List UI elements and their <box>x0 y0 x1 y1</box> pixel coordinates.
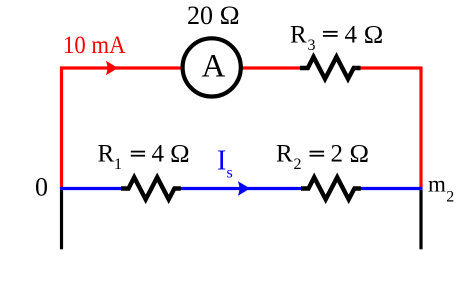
wire: blue segment R2 to node m2 <box>359 187 423 190</box>
svg-text:4: 4 <box>152 141 165 168</box>
svg-text:m: m <box>428 171 446 196</box>
wire: red segment R3 to top-right corner and down right side <box>359 68 421 189</box>
svg-text:Ω: Ω <box>170 141 190 168</box>
ammeter U1: circle <box>183 38 241 96</box>
arrowhead: Is current direction <box>238 181 250 195</box>
wire: red segment ammeter to R3 <box>242 66 302 69</box>
svg-text:20: 20 <box>187 1 213 30</box>
resistor R2 zigzag <box>301 177 361 199</box>
svg-text:2: 2 <box>446 189 454 206</box>
resistor R3 zigzag <box>300 57 361 79</box>
resistor R1 zigzag <box>121 177 181 199</box>
svg-text:4: 4 <box>345 22 358 49</box>
svg-text:I: I <box>217 146 226 177</box>
wire: blue segment R1 to R2 <box>180 187 302 190</box>
svg-text:A: A <box>202 49 226 85</box>
svg-text:R: R <box>276 141 293 168</box>
svg-text:s: s <box>227 165 233 182</box>
svg-text:Ω: Ω <box>220 1 240 30</box>
svg-text:3: 3 <box>308 37 316 54</box>
svg-text:2: 2 <box>331 141 344 168</box>
svg-text:1: 1 <box>114 156 122 173</box>
wire: top horizontal red segment from corner to ammeter <box>60 66 182 69</box>
svg-text:0: 0 <box>35 173 48 202</box>
svg-text:R: R <box>290 22 307 49</box>
wire: left vertical red segment (node 0 up to top-left corner) <box>60 67 63 190</box>
svg-text:R: R <box>98 141 115 168</box>
wire: black stub below node m2 <box>419 190 422 249</box>
arrowhead: 10 mA current direction <box>106 61 118 75</box>
wire: black stub below node 0 <box>60 190 63 249</box>
svg-text:10 mA: 10 mA <box>63 32 126 59</box>
wire: blue segment node 0 to R1 <box>60 187 122 190</box>
svg-text:2: 2 <box>294 156 302 173</box>
svg-text:Ω: Ω <box>350 141 370 168</box>
svg-text:Ω: Ω <box>364 22 384 49</box>
